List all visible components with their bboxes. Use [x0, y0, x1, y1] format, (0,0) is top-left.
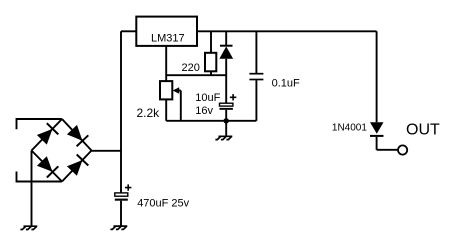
- wire 1N4001 cathode lead down: [376, 137, 378, 150]
- svg-text:1N4001: 1N4001: [332, 122, 367, 133]
- bridge diode bottom-right (AC bottom to pos): [67, 155, 88, 176]
- wire LM317 input pin (left): [121, 30, 136, 32]
- wire AC input top bracket: [17, 119, 63, 129]
- wire bridge edge bottom-right: [62, 151, 92, 182]
- wire bottom rail (pot/cap ground rail): [166, 120, 256, 122]
- wire R 220 bottom lead: [210, 71, 212, 75]
- wire bridge edge top-left: [32, 119, 63, 151]
- capacitor C3 470uF 25v electrolytic: [115, 184, 190, 209]
- resistor R1 220: [182, 53, 217, 74]
- wire main left vertical (bridge + to LM317 in, down to C 470uF): [120, 31, 122, 193]
- wire 1N4001 anode lead from output rail: [376, 31, 378, 122]
- wire bridge edge top-right: [62, 119, 92, 151]
- wire C 0.1uF bottom lead: [255, 80, 257, 121]
- wire C 470uF bottom lead: [120, 201, 122, 226]
- wire LM317 ADJ pin down to pot: [165, 46, 167, 81]
- diode D2 1N4001 output: [332, 122, 384, 136]
- junction node dot: [224, 118, 229, 123]
- svg-text:OUT: OUT: [406, 122, 440, 139]
- capacitor C1 10uF 16v electrolytic: [195, 92, 236, 117]
- potentiometer R2 2.2k: [137, 81, 181, 120]
- op-amp box U1 LM317 regulator: [136, 17, 197, 46]
- wire C 0.1uF top lead: [255, 31, 257, 73]
- wire AC input bottom bracket: [17, 172, 63, 182]
- wire diode D1 upper lead from output rail: [225, 31, 227, 45]
- bridge diode top-left (neg to AC top): [37, 123, 58, 144]
- wire bridge edge bottom-left: [32, 151, 63, 182]
- wire ADJ node horizontal: [166, 74, 226, 76]
- svg-text:10uF: 10uF: [195, 92, 220, 104]
- svg-text:LM317: LM317: [151, 33, 185, 45]
- svg-text:2.2k: 2.2k: [137, 106, 161, 120]
- ground (bottom rail): [215, 136, 232, 139]
- svg-text:470uF 25v: 470uF 25v: [137, 197, 189, 209]
- OUT terminal circle: [398, 145, 407, 154]
- wire pot wiper to bottom rail: [180, 91, 182, 121]
- wire pot bottom lead: [165, 99, 167, 120]
- svg-text:0.1uF: 0.1uF: [272, 77, 300, 89]
- wire R 220 top lead: [210, 31, 212, 53]
- svg-text:220: 220: [182, 62, 200, 74]
- wire output rail (LM317 out to 1N4001): [197, 30, 377, 32]
- wire ground stem at junction: [225, 121, 227, 137]
- diode D1 (ADJ to OUT protection): [219, 46, 233, 59]
- wire bridge output to vertical: [92, 150, 122, 152]
- bridge diode bottom-left (neg to AC bottom): [37, 156, 58, 177]
- wire diode D1 lower lead to ADJ node and C 10uF: [225, 59, 227, 103]
- wire to OUT terminal: [377, 149, 398, 151]
- wire bridge negative to ground: [31, 151, 33, 227]
- ground (bridge negative): [20, 226, 37, 229]
- capacitor C2 0.1uF: [249, 74, 300, 90]
- ground (C 470uF): [110, 226, 127, 229]
- svg-text:16v: 16v: [195, 105, 213, 117]
- wire C 10uF bottom lead: [225, 110, 227, 121]
- bridge diode top-right (AC top to pos): [67, 125, 88, 146]
